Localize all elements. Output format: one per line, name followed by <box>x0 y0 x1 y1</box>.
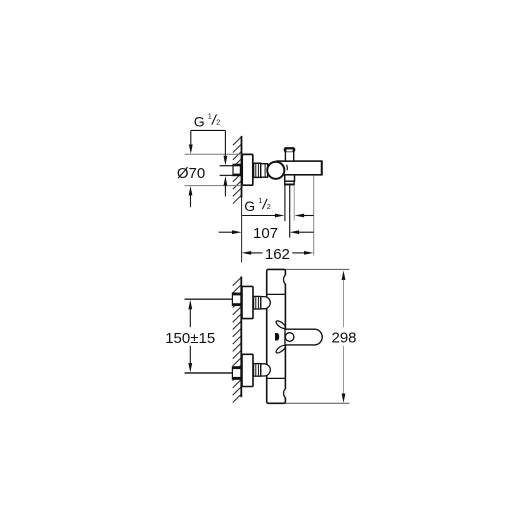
svg-text:G: G <box>194 113 205 129</box>
svg-text:G: G <box>244 198 255 214</box>
svg-text:2: 2 <box>216 117 220 126</box>
svg-text:2: 2 <box>267 202 271 211</box>
svg-text:298: 298 <box>331 330 356 347</box>
svg-text:162: 162 <box>265 246 290 263</box>
svg-text:150±15: 150±15 <box>165 330 215 347</box>
svg-text:107: 107 <box>253 225 278 242</box>
svg-text:Ø70: Ø70 <box>177 165 205 182</box>
svg-text:1: 1 <box>208 112 212 121</box>
svg-text:1: 1 <box>258 196 262 205</box>
